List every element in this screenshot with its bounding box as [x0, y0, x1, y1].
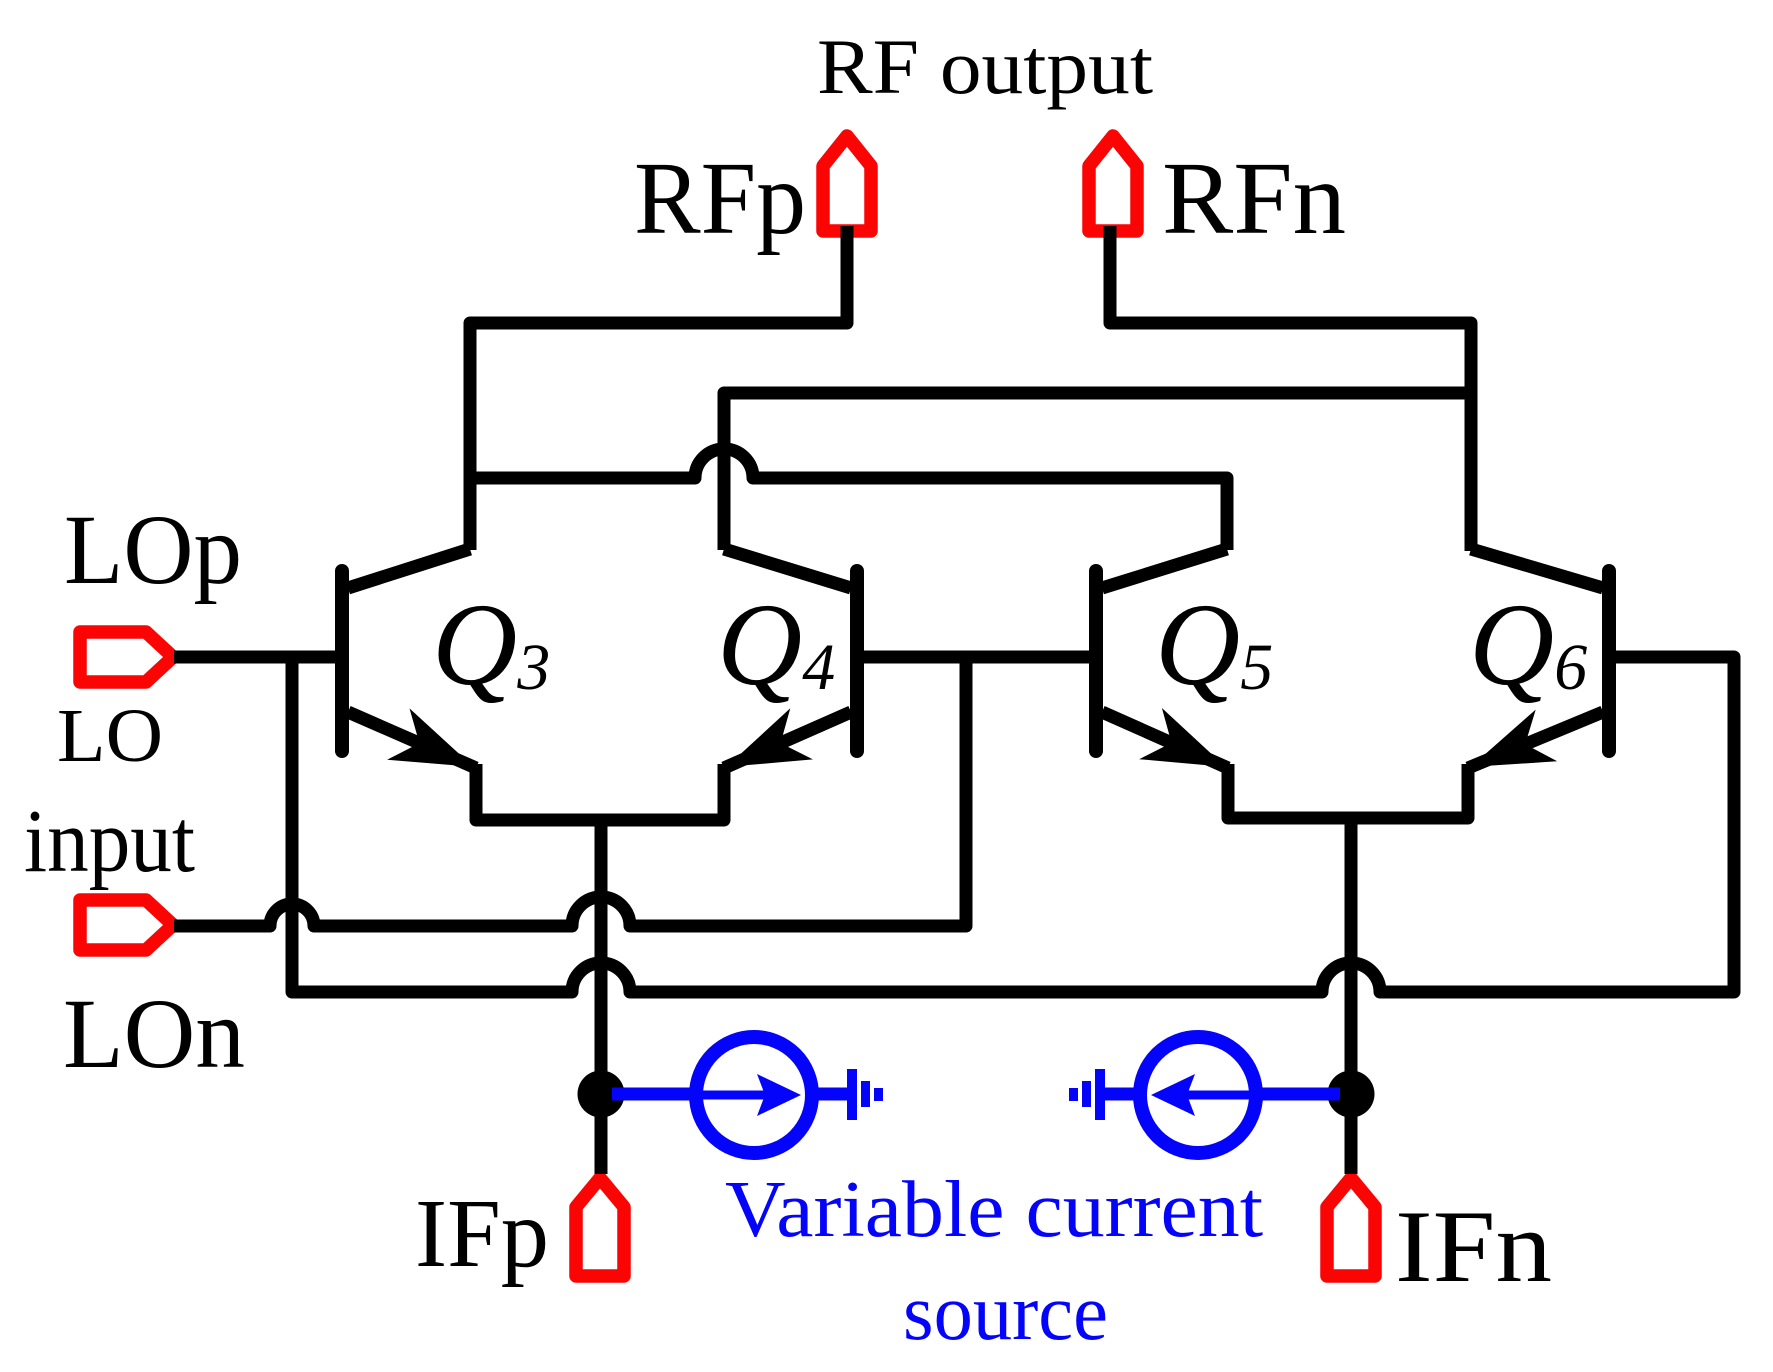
- variable current source right (I2): [1069, 1037, 1340, 1153]
- svg-text:LO: LO: [57, 694, 163, 778]
- wire Q3/Q4 shared emitter rail: [476, 764, 724, 820]
- port RFp: [823, 136, 871, 231]
- wire RFn net: port down, right rail, Q6 collector vertical: [1110, 226, 1471, 551]
- wire LOp to Q3 base: [174, 651, 338, 664]
- port RFn: [1089, 136, 1137, 231]
- node IFn junction: [1328, 1071, 1375, 1118]
- svg-text:LOp: LOp: [64, 494, 242, 605]
- wire LOn line (hops over LOp branch and IFp vertical) up to Q4/Q5 bases: [174, 657, 966, 926]
- port IFp: [576, 1178, 624, 1276]
- node IFp junction: [578, 1071, 625, 1118]
- wire Q4 base to Q5 base link: [857, 651, 1096, 664]
- label Variable current source: [725, 1166, 1263, 1357]
- wire Q5/Q6 shared emitter rail: [1228, 764, 1468, 818]
- variable current source left (I1): [612, 1037, 883, 1153]
- transistor Q5: [1096, 549, 1228, 768]
- wire IFn vertical: [1345, 818, 1358, 1174]
- port LOn: [80, 900, 173, 950]
- svg-text:source: source: [903, 1269, 1108, 1357]
- svg-text:RFn: RFn: [1162, 141, 1346, 256]
- wire RFp net: port down, left rail, Q3 collector vertical: [470, 226, 847, 550]
- transistor Q3: [342, 549, 476, 768]
- wire cross-couple line RFn to Q4 collector: [724, 393, 1471, 550]
- port LOp: [80, 632, 173, 682]
- svg-text:IFn: IFn: [1395, 1190, 1552, 1304]
- transistor Q4: [724, 549, 857, 768]
- wire cross-couple line RFp to Q5 collector (hop over Q4 collector): [470, 449, 1227, 550]
- svg-text:RF output: RF output: [817, 23, 1153, 110]
- svg-text:LOn: LOn: [63, 978, 245, 1089]
- svg-text:Variable current: Variable current: [725, 1166, 1263, 1254]
- port IFn: [1327, 1178, 1375, 1276]
- transistor Q6: [1468, 549, 1609, 768]
- svg-text:RFp: RFp: [634, 141, 806, 256]
- svg-text:IFp: IFp: [415, 1180, 549, 1287]
- svg-text:input: input: [24, 792, 195, 891]
- wire LOp branch down and across to Q6 base (hops over IFp and IFn verticals): [292, 657, 1734, 992]
- wire IFp vertical: [595, 820, 608, 1174]
